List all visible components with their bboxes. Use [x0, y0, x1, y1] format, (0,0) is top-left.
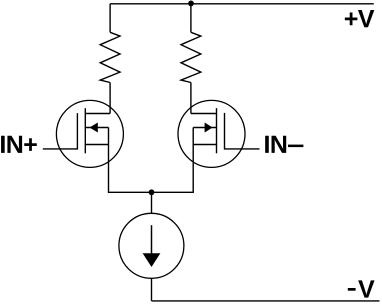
wire M1 source down to tail	[108, 128, 110, 194]
label +V	[345, 10, 374, 27]
wire tail to current source	[151, 192, 153, 213]
wire M2 source down to tail	[192, 128, 194, 194]
wire gate lead M1 to IN+	[43, 148, 78, 150]
wire current source to bottom rail	[151, 278, 153, 301]
label IN- dash	[288, 145, 303, 148]
label IN+	[1, 136, 37, 153]
label -V dash	[348, 288, 356, 291]
node tail junction	[149, 189, 155, 195]
wire R1 to M1 drain	[109, 83, 111, 114]
wire top rail to R2	[190, 4, 192, 33]
wire bottom rail -V	[152, 300, 380, 302]
wire R2 to M2 drain	[190, 83, 192, 114]
transistor M2 (right NMOS)	[178, 100, 245, 167]
transistor M1 (left NMOS)	[56, 100, 123, 167]
wire top rail +V	[110, 3, 374, 5]
wire gate lead M2 to IN-	[225, 148, 260, 150]
wire top rail to R1	[109, 4, 111, 33]
current source I1	[119, 213, 184, 278]
resistor R2	[181, 32, 201, 82]
node top junction	[188, 1, 194, 7]
label IN-	[265, 136, 286, 153]
resistor R1	[100, 32, 120, 82]
label -V	[358, 280, 374, 297]
wire tail rail	[109, 191, 194, 193]
